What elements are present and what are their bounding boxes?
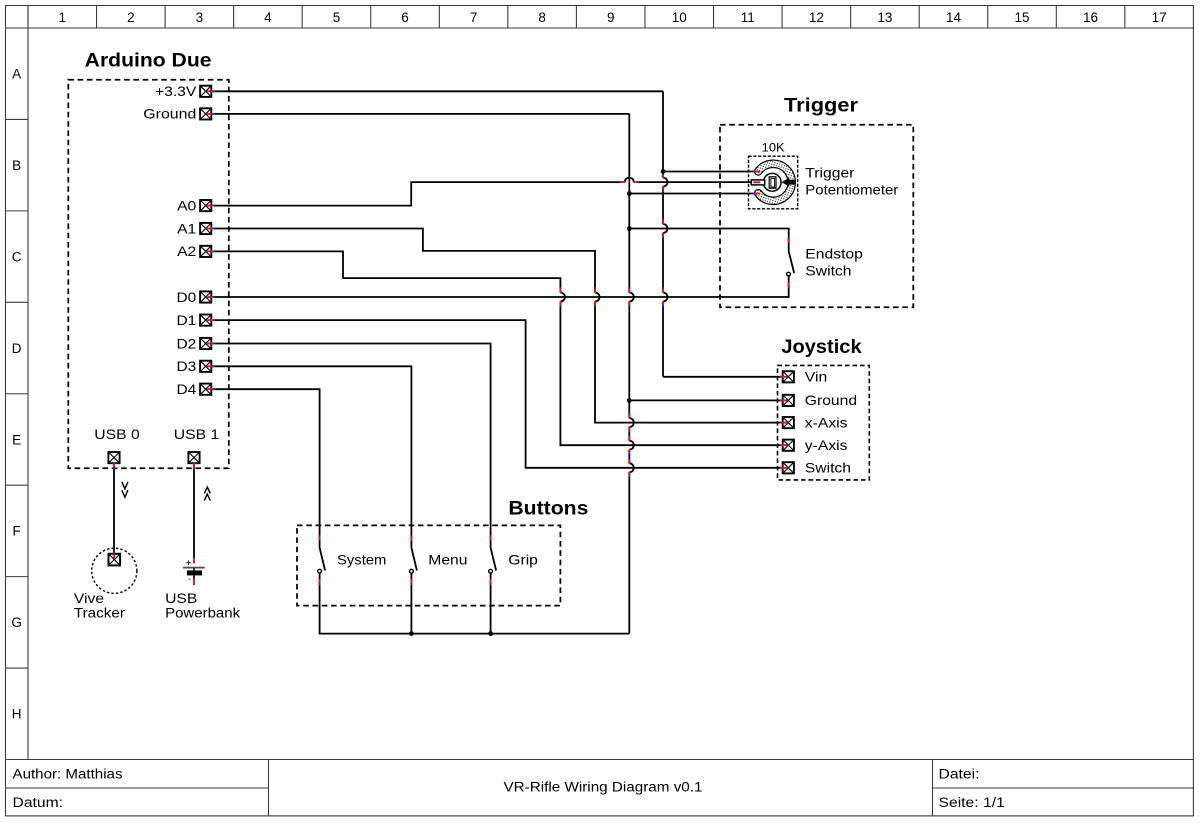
svg-text:B: B bbox=[12, 158, 21, 173]
svg-text:Trigger: Trigger bbox=[805, 164, 854, 180]
svg-text:A: A bbox=[12, 67, 21, 82]
svg-text:Endstop: Endstop bbox=[805, 245, 863, 261]
svg-text:D4: D4 bbox=[177, 381, 197, 397]
svg-text:17: 17 bbox=[1152, 10, 1167, 25]
svg-text:15: 15 bbox=[1015, 10, 1030, 25]
svg-text:G: G bbox=[11, 615, 22, 630]
svg-text:VR-Rifle Wiring Diagram v0.1: VR-Rifle Wiring Diagram v0.1 bbox=[504, 780, 703, 795]
svg-text:9: 9 bbox=[607, 10, 615, 25]
svg-text:Seite: 1/1: Seite: 1/1 bbox=[939, 795, 1005, 810]
svg-text:Datum:: Datum: bbox=[13, 795, 64, 810]
svg-text:4: 4 bbox=[264, 10, 272, 25]
svg-text:Powerbank: Powerbank bbox=[165, 605, 241, 621]
svg-text:Tracker: Tracker bbox=[74, 605, 125, 621]
svg-text:Arduino Due: Arduino Due bbox=[85, 50, 212, 71]
svg-text:USB: USB bbox=[165, 590, 197, 606]
svg-text:A0: A0 bbox=[177, 197, 196, 213]
svg-text:Grip: Grip bbox=[508, 551, 538, 567]
svg-text:Menu: Menu bbox=[428, 551, 467, 567]
svg-text:8: 8 bbox=[538, 10, 546, 25]
svg-text:Vin: Vin bbox=[805, 369, 827, 385]
svg-text:16: 16 bbox=[1083, 10, 1098, 25]
svg-text:Vive: Vive bbox=[74, 590, 104, 606]
svg-text:D2: D2 bbox=[177, 335, 197, 351]
svg-text:2: 2 bbox=[127, 10, 135, 25]
svg-text:Ground: Ground bbox=[143, 106, 196, 122]
svg-text:10: 10 bbox=[672, 10, 687, 25]
svg-text:D1: D1 bbox=[177, 312, 197, 328]
svg-text:F: F bbox=[12, 524, 20, 539]
svg-text:Switch: Switch bbox=[805, 263, 851, 279]
svg-text:10K: 10K bbox=[762, 143, 785, 155]
svg-text:12: 12 bbox=[809, 10, 824, 25]
svg-text:D: D bbox=[12, 341, 22, 356]
svg-text:Potentiometer: Potentiometer bbox=[805, 182, 898, 198]
svg-text:A2: A2 bbox=[177, 243, 196, 259]
svg-text:Ground: Ground bbox=[805, 392, 857, 408]
svg-text:Datei:: Datei: bbox=[939, 767, 980, 782]
svg-text:6: 6 bbox=[401, 10, 409, 25]
svg-text:Joystick: Joystick bbox=[781, 337, 862, 358]
svg-text:5: 5 bbox=[333, 10, 341, 25]
svg-text:H: H bbox=[12, 707, 22, 722]
svg-text:D0: D0 bbox=[177, 289, 197, 305]
svg-text:Switch: Switch bbox=[805, 460, 851, 476]
svg-text:1: 1 bbox=[59, 10, 67, 25]
svg-text:C: C bbox=[12, 249, 22, 264]
svg-text:A1: A1 bbox=[177, 220, 196, 236]
svg-text:x-Axis: x-Axis bbox=[805, 414, 848, 430]
svg-text:y-Axis: y-Axis bbox=[805, 437, 848, 453]
svg-text:14: 14 bbox=[946, 10, 962, 25]
svg-text:D3: D3 bbox=[177, 358, 197, 374]
svg-text:7: 7 bbox=[470, 10, 478, 25]
svg-text:E: E bbox=[12, 432, 21, 447]
svg-text:Trigger: Trigger bbox=[784, 96, 859, 117]
svg-text:USB 1: USB 1 bbox=[174, 426, 220, 442]
svg-text:System: System bbox=[337, 551, 386, 567]
svg-text:13: 13 bbox=[877, 10, 892, 25]
svg-text:3: 3 bbox=[196, 10, 204, 25]
svg-text:Buttons: Buttons bbox=[508, 498, 588, 519]
svg-text:USB 0: USB 0 bbox=[94, 426, 140, 442]
svg-text:11: 11 bbox=[741, 10, 755, 25]
svg-text:+3.3V: +3.3V bbox=[155, 83, 197, 99]
svg-text:Author: Matthias: Author: Matthias bbox=[13, 767, 123, 782]
